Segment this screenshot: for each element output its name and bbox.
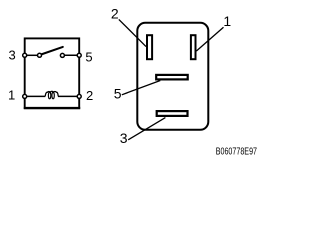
wire switch contact to terminal 5	[62, 54, 79, 56]
switch contact circle right	[60, 53, 64, 57]
leader line pin 2	[119, 19, 146, 46]
leader line pin 5	[122, 81, 161, 95]
terminal circle 5	[77, 53, 81, 57]
svg-text:5: 5	[114, 86, 122, 102]
connector slot pin 3 (bottom horizontal)	[157, 111, 188, 116]
connector body	[137, 23, 208, 130]
terminal circle 2	[77, 94, 81, 98]
switch blade S1	[41, 47, 63, 55]
svg-text:1: 1	[223, 13, 231, 29]
wire terminal 1 to coil	[25, 95, 46, 97]
svg-text:B060778E97: B060778E97	[216, 145, 257, 157]
connector slot pin 2 (top-left vertical)	[147, 35, 152, 59]
wire coil to terminal 2	[58, 95, 79, 97]
leader line pin 3	[128, 118, 165, 140]
svg-text:2: 2	[86, 88, 93, 103]
relay coil L1 humps	[45, 91, 58, 96]
svg-text:2: 2	[111, 5, 119, 21]
svg-text:3: 3	[120, 130, 128, 146]
relay box bottom edge (thicker)	[24, 107, 80, 109]
svg-text:5: 5	[85, 49, 92, 64]
wire terminal 3 to switch contact	[25, 54, 40, 56]
relay K1 outline box	[25, 38, 79, 108]
terminal circle 1	[23, 94, 27, 98]
connector slot pin 5 (middle horizontal)	[156, 75, 188, 80]
relay coil loop 2	[52, 92, 54, 99]
switch contact circle left	[38, 53, 42, 57]
svg-text:3: 3	[8, 48, 15, 63]
connector slot pin 1 (top-right vertical)	[191, 35, 196, 59]
terminal circle 3	[23, 53, 27, 57]
svg-text:1: 1	[8, 88, 15, 103]
leader line pin 1	[196, 27, 223, 51]
relay coil loop 1	[48, 92, 50, 99]
